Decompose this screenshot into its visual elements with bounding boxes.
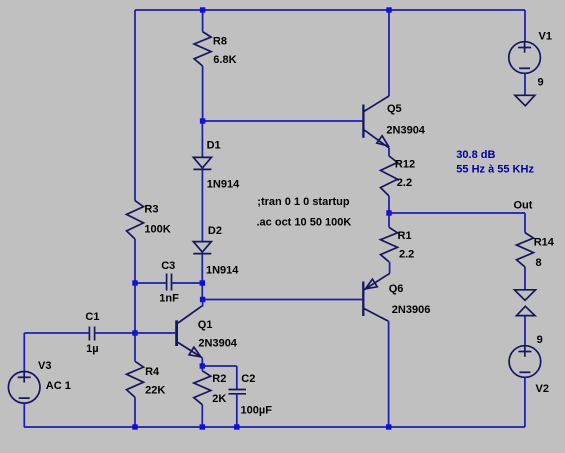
wire arrow2 to V2 xyxy=(524,316,526,346)
wire D2 to C3 node xyxy=(201,254,203,283)
svg-text:R1: R1 xyxy=(398,230,412,242)
node junction bottom R2 xyxy=(200,424,205,429)
capacitor C3 xyxy=(166,274,168,291)
svg-text:C3: C3 xyxy=(161,260,175,272)
svg-text:2N3904: 2N3904 xyxy=(386,125,425,137)
wire bottom ground rail xyxy=(24,426,525,428)
voltage source V2 xyxy=(509,346,541,378)
node junction R3/C3 xyxy=(132,280,137,285)
svg-text:2N3906: 2N3906 xyxy=(392,304,431,316)
wire C3 node down xyxy=(201,283,203,300)
svg-text:.ac oct 10 50 100K: .ac oct 10 50 100K xyxy=(257,217,352,229)
wire R1 top stub xyxy=(388,213,390,227)
wire R8 bottom to D1 node xyxy=(202,66,204,121)
svg-text:100K: 100K xyxy=(144,223,170,235)
svg-text:R4: R4 xyxy=(145,366,160,378)
wire V1 to ground xyxy=(524,73,526,95)
transistor Q5 2N3904 xyxy=(362,105,364,138)
node junction top R8 xyxy=(200,7,205,12)
node junction Out xyxy=(386,210,391,215)
wire R4 bottom xyxy=(134,397,136,427)
svg-text:Q6: Q6 xyxy=(389,283,404,295)
resistor R1 xyxy=(381,227,398,261)
ground symbol xyxy=(515,95,535,106)
wire left rail down to R3 xyxy=(134,10,136,201)
svg-text:8: 8 xyxy=(536,257,542,269)
svg-text:2.2: 2.2 xyxy=(399,248,414,260)
wire Q6 collector down xyxy=(388,321,390,427)
svg-text:1N914: 1N914 xyxy=(206,265,239,277)
wire R3 bottom to C3 node xyxy=(134,239,136,283)
wire V1 drop from top rail xyxy=(524,10,526,42)
node junction top Q5 collector xyxy=(386,7,391,12)
wire Q1 emitter stub xyxy=(201,358,203,367)
svg-text:R8: R8 xyxy=(213,35,227,47)
wire R2 bottom xyxy=(201,405,203,427)
capacitor C2 xyxy=(229,389,247,391)
node junction Q6 base / Q1 collector xyxy=(200,297,205,302)
svg-text:AC 1: AC 1 xyxy=(46,380,71,392)
svg-text:2.2: 2.2 xyxy=(397,177,412,189)
node junction C1/R4/Q1 base xyxy=(132,330,137,335)
wire top supply rail xyxy=(135,9,525,11)
node junction Q1 emitter / R2 / C2 xyxy=(200,363,205,368)
wire R4 top stub xyxy=(134,333,136,361)
svg-text:1N914: 1N914 xyxy=(207,179,240,191)
capacitor C1 xyxy=(88,327,90,341)
resistor R14 xyxy=(517,233,534,267)
arrow symbol up xyxy=(517,306,536,315)
wire R8 top stub xyxy=(202,10,204,32)
wire Out drop to R14 xyxy=(524,213,526,233)
svg-text:C1: C1 xyxy=(85,311,99,323)
wire V2 to bottom rail xyxy=(524,377,526,427)
resistor R3 xyxy=(127,201,144,239)
wire C3 right xyxy=(172,282,203,284)
svg-text:1µ: 1µ xyxy=(86,343,98,355)
svg-text:R3: R3 xyxy=(144,204,158,216)
voltage source V1 xyxy=(509,42,541,74)
svg-text:55 Hz à 55 KHz: 55 Hz à 55 KHz xyxy=(456,164,534,176)
svg-text:2N3904: 2N3904 xyxy=(198,338,237,350)
svg-text:V2: V2 xyxy=(536,383,549,395)
wire Q1 collector stub xyxy=(202,300,204,307)
svg-text:6.8K: 6.8K xyxy=(213,54,236,66)
wire C1 to base node xyxy=(95,332,135,334)
svg-text:V3: V3 xyxy=(38,360,51,372)
wire emitter node to C2 xyxy=(202,365,237,367)
svg-text:R2: R2 xyxy=(212,373,226,385)
svg-text:D2: D2 xyxy=(208,225,222,237)
wire Q5 emitter to R12 xyxy=(388,148,390,156)
svg-text:2K: 2K xyxy=(212,393,226,405)
transistor Q1 2N3904 xyxy=(175,320,178,346)
wire mid left rail xyxy=(134,283,136,333)
wire R12 to Out node xyxy=(388,196,390,213)
resistor R4 xyxy=(127,361,144,397)
wire D1 to D2 xyxy=(201,170,203,242)
svg-text:R12: R12 xyxy=(395,159,415,171)
diode D1 1N914 xyxy=(193,157,211,168)
svg-text:Q5: Q5 xyxy=(387,103,402,115)
resistor R2 xyxy=(194,371,211,405)
node junction bottom Q6 xyxy=(386,424,391,429)
diode D2 1N914 xyxy=(193,242,211,253)
svg-text:V1: V1 xyxy=(539,31,552,43)
wire R1 to Q6 emitter xyxy=(389,262,391,274)
svg-text:Out: Out xyxy=(514,200,533,212)
node junction C3/D2 xyxy=(200,280,205,285)
wire Q5 base xyxy=(203,120,363,122)
wire C3 left xyxy=(135,282,167,284)
wire C2 bottom xyxy=(236,394,238,427)
wire Q5 collector vertical xyxy=(388,10,390,96)
svg-text:;tran 0 1 0 startup: ;tran 0 1 0 startup xyxy=(257,196,350,208)
resistor R12 xyxy=(381,156,398,196)
svg-text:9: 9 xyxy=(537,334,543,346)
voltage source V3 xyxy=(8,372,40,404)
resistor R8 xyxy=(194,32,211,66)
svg-text:1nF: 1nF xyxy=(159,293,179,305)
node junction R8/D1/Q5 base xyxy=(200,118,205,123)
wire R2 top stub xyxy=(201,366,203,371)
wire Q6 base xyxy=(203,299,363,301)
wire Out horizontal xyxy=(389,212,525,214)
svg-text:100µF: 100µF xyxy=(241,405,273,417)
wire V3 bottom xyxy=(23,403,25,427)
node junction bottom C2 xyxy=(234,424,239,429)
wire R14 to arrow1 xyxy=(524,267,526,290)
svg-text:30.8 dB: 30.8 dB xyxy=(456,149,495,161)
svg-text:C2: C2 xyxy=(241,373,255,385)
wire V3 top to C1 xyxy=(23,333,25,372)
wire Q1 base xyxy=(135,332,175,334)
svg-text:R14: R14 xyxy=(534,236,555,248)
arrow symbol down xyxy=(515,290,536,301)
svg-text:D1: D1 xyxy=(207,139,221,151)
svg-text:9: 9 xyxy=(538,76,544,88)
svg-text:Q1: Q1 xyxy=(198,319,213,331)
node junction bottom R4 xyxy=(132,424,137,429)
svg-text:22K: 22K xyxy=(145,385,165,397)
transistor Q6 2N3906 xyxy=(362,282,364,317)
wire node to D1 xyxy=(201,121,203,157)
